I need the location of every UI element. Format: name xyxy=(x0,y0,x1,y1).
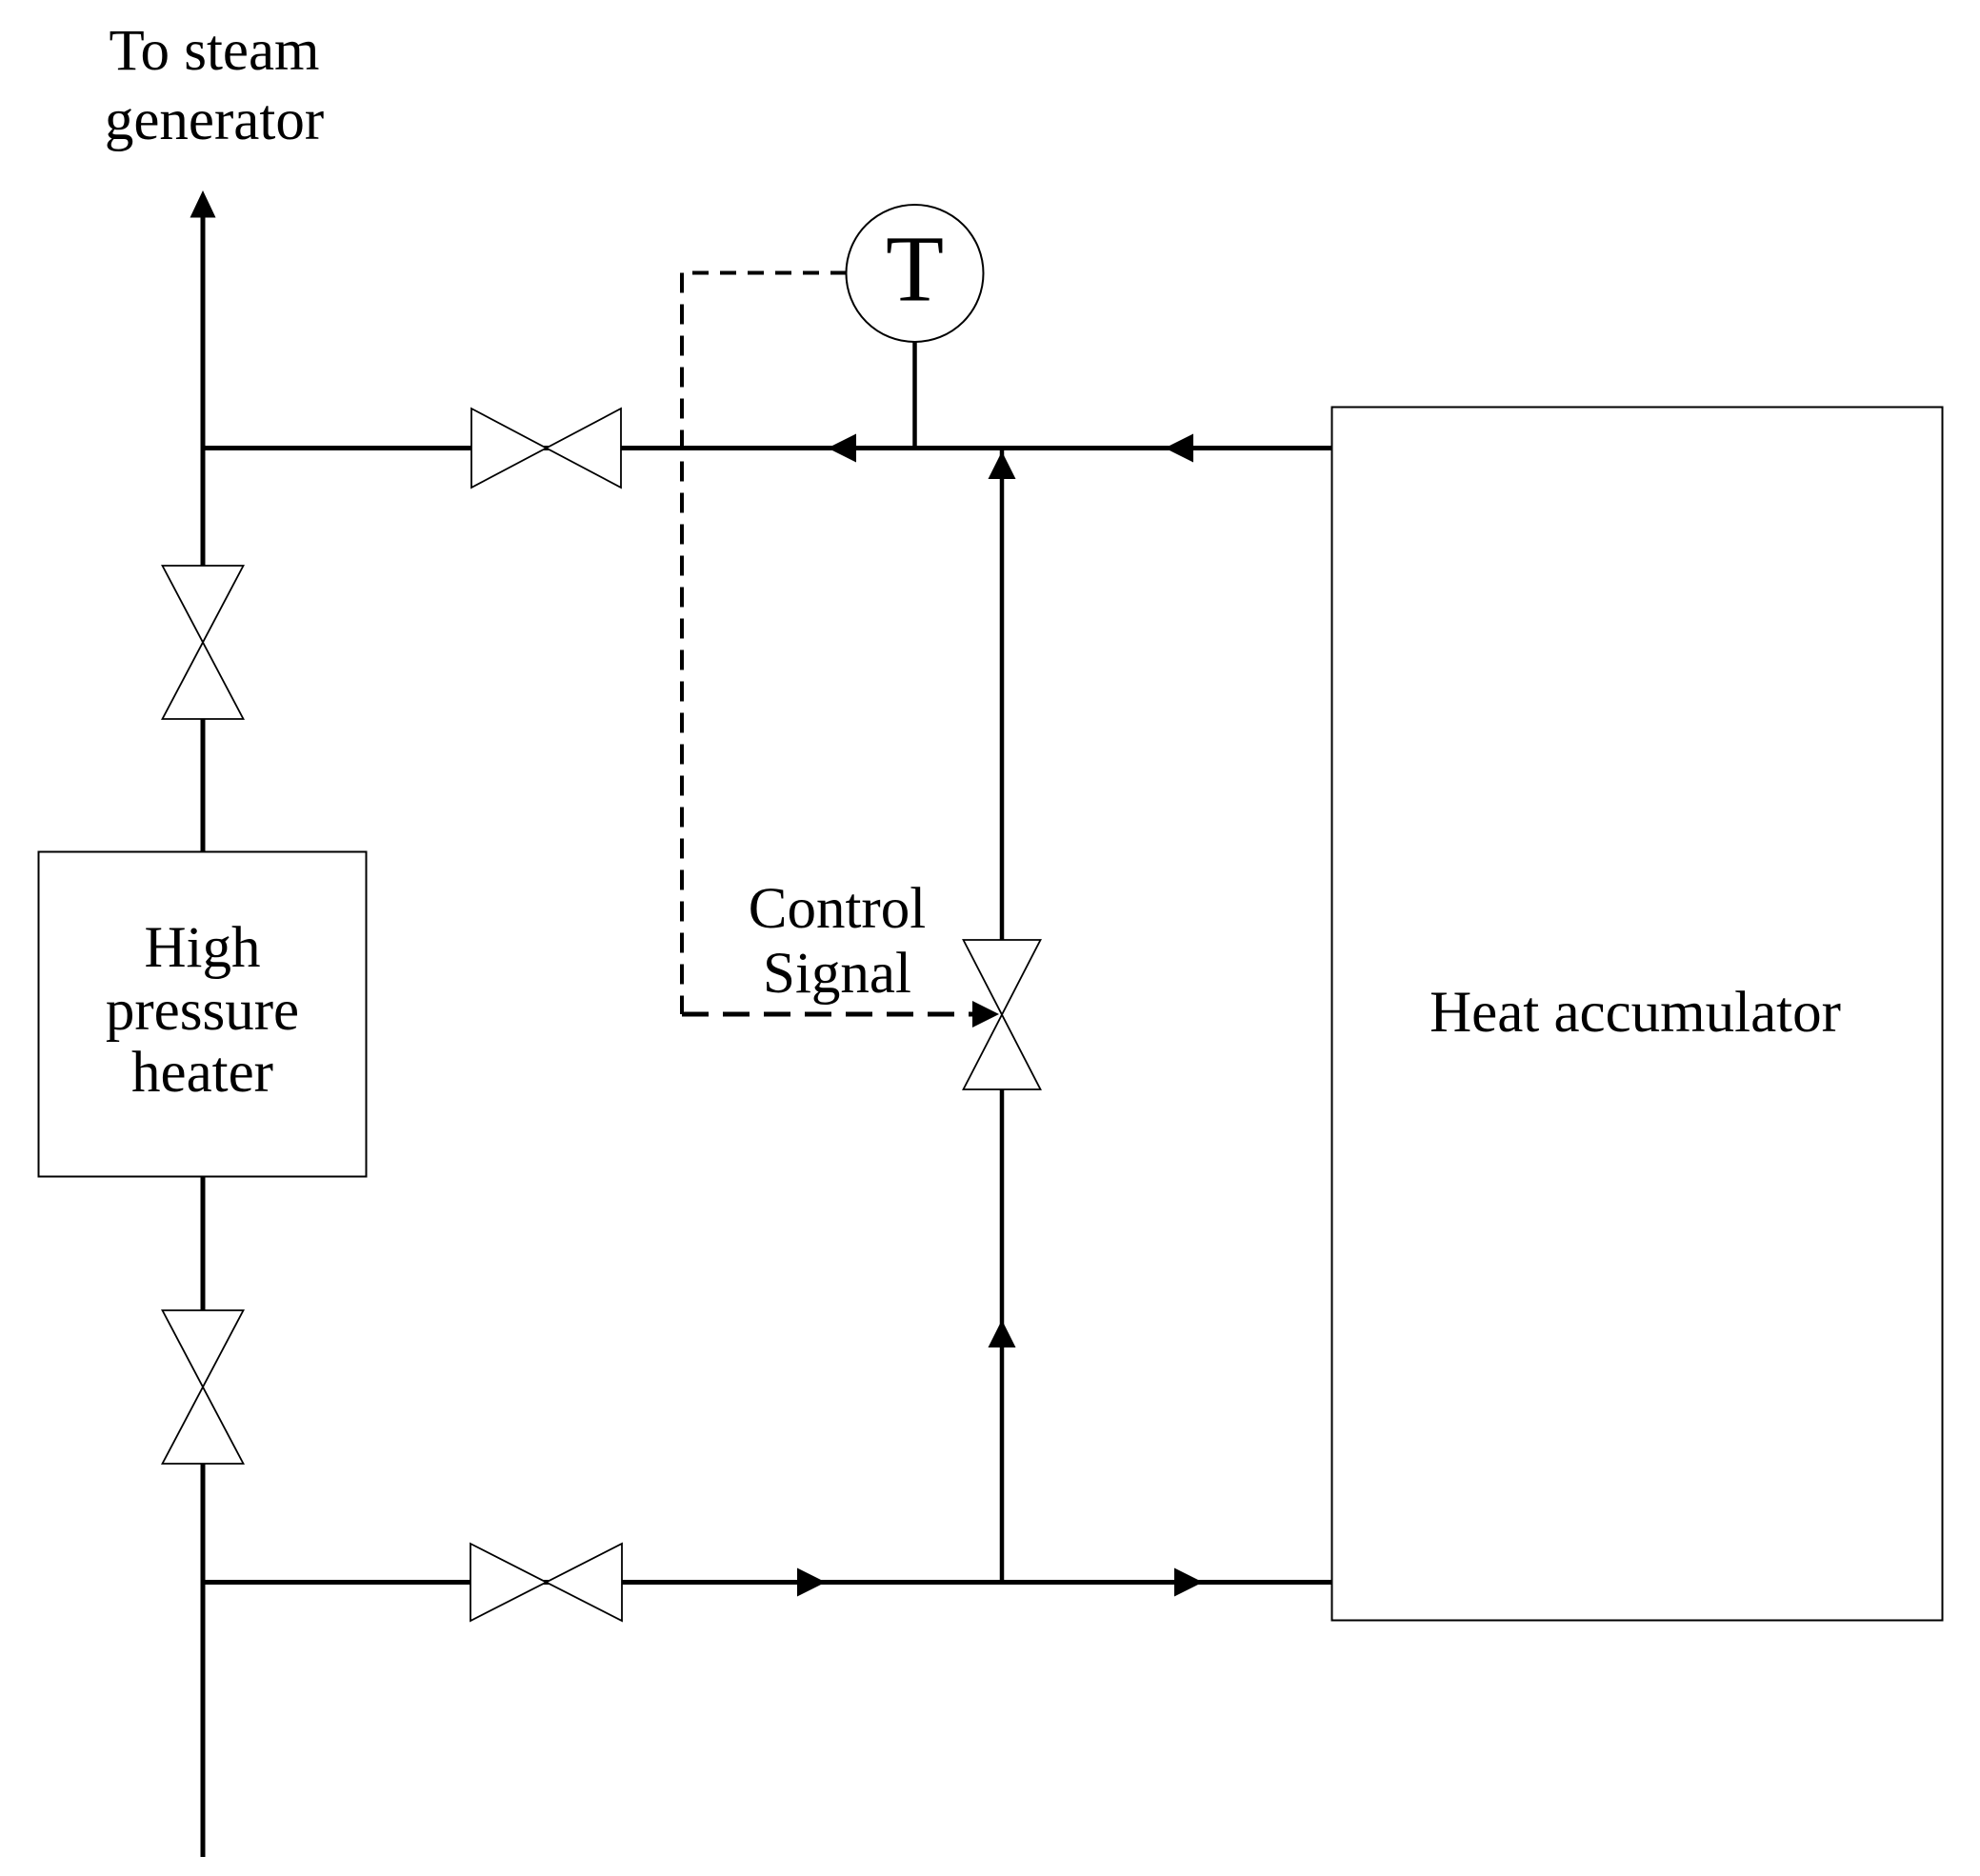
wire: left vertical pipe segment valve to heater box xyxy=(201,719,206,851)
svg-text:High: High xyxy=(145,916,261,980)
wire: left vertical pipe segment heater box to lower valve xyxy=(201,1177,206,1310)
arrow right on bottom pipe near heat accumulator xyxy=(1174,1568,1203,1597)
svg-text:heater: heater xyxy=(131,1041,273,1105)
arrow left on top pipe near heat accumulator xyxy=(1165,434,1193,463)
dashed signal line horizontal from T circle xyxy=(682,271,847,275)
svg-text:pressure: pressure xyxy=(106,979,299,1043)
wire: left vertical pipe segment below lower valve xyxy=(201,1464,206,1857)
svg-text:T: T xyxy=(886,216,944,322)
svg-text:Signal: Signal xyxy=(763,942,911,1006)
svg-text:Heat accumulator: Heat accumulator xyxy=(1430,981,1841,1045)
arrow left on top pipe near T junction xyxy=(828,434,856,463)
lower valve on left vertical pipe xyxy=(163,1310,244,1464)
wire: bottom horizontal pipe xyxy=(201,1580,1332,1585)
arrow right at end of dashed signal line xyxy=(972,1001,999,1028)
upper valve on left vertical pipe xyxy=(163,566,244,719)
dashed signal line bottom horizontal to control valve xyxy=(682,1012,972,1017)
label: To steam generator xyxy=(105,19,324,152)
control valve xyxy=(964,940,1041,1089)
svg-text:generator: generator xyxy=(105,89,324,152)
arrow up on control stem below top pipe xyxy=(989,451,1016,479)
dashed signal line vertical xyxy=(680,273,684,1015)
wire: top horizontal pipe xyxy=(201,446,1332,450)
label: Control Signal xyxy=(749,877,926,1006)
valve on bottom horizontal pipe xyxy=(470,1544,622,1621)
valve on top horizontal pipe xyxy=(471,409,621,488)
wire: left vertical pipe segment above top valve xyxy=(201,215,206,566)
wire: control valve upper stem xyxy=(1000,446,1005,940)
temperature sensor circle xyxy=(847,205,984,342)
wire: temperature sensor stem xyxy=(912,339,917,449)
arrow right on bottom pipe left of junction xyxy=(797,1568,826,1597)
high pressure heater box xyxy=(39,852,367,1177)
svg-text:To steam: To steam xyxy=(109,19,319,83)
svg-text:Control: Control xyxy=(749,877,926,941)
heat accumulator box xyxy=(1332,408,1943,1621)
arrow up on control valve lower stem xyxy=(989,1320,1016,1347)
label: High pressure heater xyxy=(106,916,299,1105)
wire: control valve lower stem xyxy=(1000,1089,1005,1585)
arrow up to steam generator xyxy=(190,190,216,218)
